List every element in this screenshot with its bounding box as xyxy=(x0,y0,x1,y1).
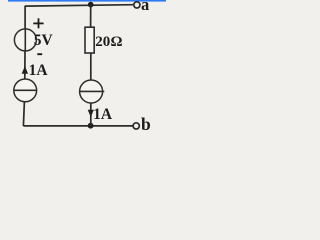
svg-text:5V: 5V xyxy=(34,32,54,49)
wire: current source right to bottom junction xyxy=(90,103,92,126)
current source 1A left (circle) xyxy=(14,79,37,102)
current source 1A right (circle) xyxy=(80,80,103,103)
terminal b (open circle) xyxy=(133,123,139,129)
voltage source 5V (circle) xyxy=(14,29,36,51)
arrow (down) of current source 1A right xyxy=(88,110,94,117)
arrow (up) of current source 1A left xyxy=(22,66,28,74)
wire: left branch top (top wire to voltage source) xyxy=(24,6,26,30)
svg-text:b: b xyxy=(141,114,151,134)
node: top junction dot xyxy=(88,2,94,8)
wire: current source left to bottom wire xyxy=(23,102,24,127)
wire: middle branch top (junction to resistor) xyxy=(90,5,92,27)
resistor 20Ω (box) xyxy=(85,27,94,53)
wire: bottom horizontal (node b net) xyxy=(23,125,133,127)
wire: top horizontal (node a net) xyxy=(25,5,133,6)
current source right internal bar xyxy=(80,90,105,92)
svg-text:20Ω: 20Ω xyxy=(95,34,122,50)
node: bottom junction dot xyxy=(88,123,94,129)
wire: resistor to current source (middle) xyxy=(90,53,92,80)
svg-text:1A: 1A xyxy=(29,62,49,79)
svg-text:1A: 1A xyxy=(93,106,113,123)
svg-text:a: a xyxy=(141,0,149,14)
current source left internal bar xyxy=(13,89,37,91)
polarity + xyxy=(33,18,43,28)
blue rule (top of image) xyxy=(8,0,166,2)
wire: voltage source to current source (left) xyxy=(24,51,26,80)
voltage source internal vertical bar xyxy=(24,29,26,51)
polarity - xyxy=(37,53,42,55)
terminal a (open circle) xyxy=(134,2,140,8)
